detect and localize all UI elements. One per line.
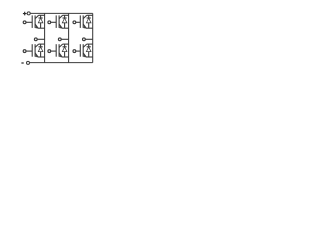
wire: Q6 collector node <box>63 43 69 45</box>
gate port g5 <box>73 21 76 24</box>
wire: negative DC bus <box>30 62 93 64</box>
diode D3 <box>62 15 67 28</box>
wire gate g3 <box>51 21 56 23</box>
transistor Q3 <box>56 15 62 28</box>
wire phase C <box>86 38 93 40</box>
wire gate g5 <box>76 21 80 23</box>
wire: Q4 collector node <box>39 43 45 45</box>
wire gate g2 <box>76 50 80 52</box>
phase B terminal <box>58 38 61 41</box>
gate port g1 <box>23 21 26 24</box>
wire gate g6 <box>51 50 56 52</box>
wire: Q5 emitter node <box>86 27 93 29</box>
wire: Q6 emitter node <box>62 56 69 58</box>
wire: leg C rail <box>92 13 94 62</box>
transistor Q1 <box>32 15 38 28</box>
gate port g3 <box>48 21 51 24</box>
transistor Q5 <box>80 15 86 28</box>
wire phase A <box>37 38 44 40</box>
diode D4 <box>38 44 43 57</box>
transistor Q2 <box>80 44 86 57</box>
diode D1 <box>38 15 43 28</box>
wire gate g1 <box>26 21 32 23</box>
phase C terminal <box>83 38 86 41</box>
wire: Q2 collector node <box>87 43 93 45</box>
diode D2 <box>86 44 91 57</box>
wire: Q3 collector node <box>63 14 69 16</box>
wire: Q4 emitter node <box>38 56 45 58</box>
transistor Q6 <box>56 44 62 57</box>
wire phase B <box>61 38 68 40</box>
phase A terminal <box>34 38 37 41</box>
gate port g4 <box>23 50 26 53</box>
wire: Q5 collector node <box>87 14 93 16</box>
gate port g6 <box>48 50 51 53</box>
DC plus terminal label <box>23 12 27 16</box>
diode D5 <box>86 15 91 28</box>
wire: Q2 emitter node <box>86 56 93 58</box>
gate port g2 <box>73 50 76 53</box>
transistor Q4 <box>32 44 38 57</box>
DC minus terminal label <box>21 62 23 64</box>
wire: Q3 emitter node <box>62 27 69 29</box>
wire: Q1 collector node <box>39 14 45 16</box>
diode D6 <box>62 44 67 57</box>
wire: positive DC bus <box>30 12 92 14</box>
wire gate g4 <box>26 50 32 52</box>
DC plus port circle <box>27 12 30 15</box>
wire: leg A rail <box>44 13 46 62</box>
DC minus port circle <box>27 61 30 64</box>
wire: leg B rail <box>68 13 70 62</box>
wire: Q1 emitter node <box>38 27 45 29</box>
